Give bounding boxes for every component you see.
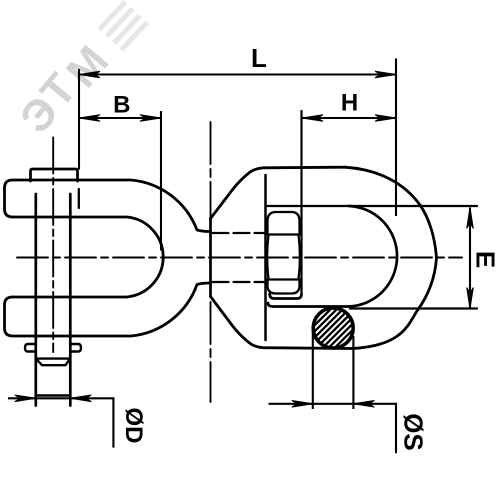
- OS left extension line: [312, 328, 314, 409]
- L right extension line: [395, 59, 397, 217]
- L left arrow: [79, 71, 100, 78]
- right body outer right cap: [345, 167, 437, 348]
- OS right extension line: [352, 336, 354, 409]
- svg-text:H: H: [341, 89, 358, 116]
- OD left arrow: [15, 395, 36, 402]
- clevis inner top edge: [13, 216, 128, 219]
- nut right edge / H left extension: [300, 111, 302, 294]
- clevis body outer bottom: [5, 283, 211, 336]
- shank hidden line bottom: [213, 281, 266, 283]
- watermark ЭТМ: [13, 89, 67, 141]
- nut middle barrel right arc: [299, 235, 300, 280]
- B dimension line: [79, 117, 161, 119]
- L dimension line: [79, 73, 396, 75]
- clevis inner bottom edge: [13, 296, 128, 299]
- pin collar chamfer: [36, 359, 71, 366]
- nut bottom chamfer arc: [268, 280, 300, 294]
- OD dimension line and leader: [8, 398, 113, 447]
- L left extension line: [78, 69, 80, 170]
- E bottom arrow: [467, 288, 474, 309]
- cotter tab right: [71, 344, 81, 352]
- B right extension line: [160, 111, 162, 251]
- nut left edge: [264, 175, 267, 340]
- pin hidden hole edge: [78, 189, 80, 208]
- nut facet line lower: [266, 278, 302, 280]
- nut facet line upper: [266, 233, 302, 235]
- E top arrow: [467, 208, 474, 229]
- svg-text:L: L: [251, 43, 267, 73]
- svg-text:ØS: ØS: [399, 413, 429, 451]
- clevis body outer top: [5, 180, 211, 232]
- svg-text:B: B: [113, 91, 130, 118]
- svg-text:E: E: [471, 251, 500, 268]
- OD right arrow: [70, 395, 91, 402]
- eye inner bottom edge: [268, 303, 350, 307]
- cotter tab left: [25, 344, 35, 352]
- pin shaft right edge: [69, 194, 72, 406]
- OS dimension line and leader: [269, 404, 396, 453]
- OS left arrow: [292, 401, 313, 408]
- H dimension line: [302, 117, 396, 119]
- swivel vertical centerline: [210, 122, 212, 402]
- B left arrow: [79, 115, 100, 122]
- L right arrow: [375, 71, 396, 78]
- H right arrow: [375, 115, 396, 122]
- nut top edge / eye inner top edge / E top extension: [266, 205, 478, 207]
- nut bottom edge: [270, 294, 302, 299]
- swivel junction face: [209, 219, 212, 297]
- E dimension line: [469, 208, 471, 309]
- nut top chamfer arc: [268, 212, 300, 235]
- svg-text:ØD: ØD: [120, 408, 147, 444]
- pin shaft left edge: [34, 194, 37, 406]
- nut middle barrel left arc: [267, 235, 268, 280]
- pin vertical centerline: [52, 138, 54, 353]
- right body funnel top: [211, 167, 346, 218]
- clevis inner bow arc: [127, 217, 163, 297]
- section circle OS: [313, 308, 353, 348]
- OS right arrow: [353, 401, 374, 408]
- main horizontal centerline: [17, 257, 462, 259]
- H left arrow: [302, 115, 323, 122]
- right body funnel bottom: [211, 297, 353, 349]
- pin head: [31, 169, 78, 181]
- E bottom extension: [350, 307, 477, 309]
- B right arrow: [140, 115, 161, 122]
- pin collar top line: [36, 357, 71, 359]
- eye inner right cap arc: [349, 206, 397, 307]
- shank hidden line top: [213, 232, 266, 234]
- pin bottom edge: [36, 394, 71, 396]
